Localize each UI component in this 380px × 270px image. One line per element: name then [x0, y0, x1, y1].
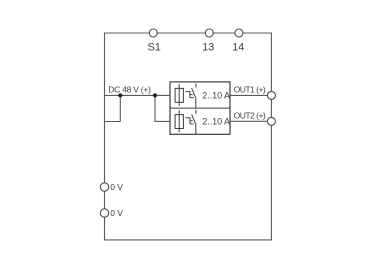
breaker contact Q1 (channel 1) [185, 84, 196, 109]
wire: step branch down-left to rail [105, 95, 121, 121]
wire: bottom rail [104, 239, 272, 241]
wire: DC 48 V (+) input to channel 1 [105, 94, 171, 96]
svg-text:DC 48 V (+): DC 48 V (+) [108, 85, 151, 95]
wire: right rail [270, 33, 272, 240]
device box U1 (dual electronic circuit breaker) [170, 82, 230, 134]
terminal S1 [149, 29, 157, 37]
wire: box divider [170, 107, 230, 109]
wire: OUT2 output [230, 120, 268, 122]
terminal OUT1 [267, 91, 275, 99]
terminal 0V upper [100, 183, 108, 191]
wire: branch to channel 2 [155, 95, 170, 121]
svg-text:13: 13 [202, 42, 214, 54]
svg-text:2..10 A: 2..10 A [202, 117, 230, 127]
svg-text:0 V: 0 V [110, 182, 123, 192]
node: junction dot 1 [118, 93, 122, 97]
fuse F2 (channel 2) [175, 110, 183, 132]
fuse F1 (channel 1) [175, 84, 183, 106]
svg-text:0 V: 0 V [110, 208, 123, 218]
node: junction dot 2 [153, 93, 157, 97]
svg-text:2..10 A: 2..10 A [202, 90, 230, 100]
terminal OUT2 [267, 117, 275, 125]
wire: left rail [104, 33, 106, 240]
svg-text:S1: S1 [147, 42, 160, 54]
terminal 0V lower [100, 209, 108, 217]
svg-text:OUT2 (+): OUT2 (+) [234, 110, 266, 120]
svg-text:14: 14 [232, 42, 244, 54]
breaker contact Q2 (channel 2) [185, 110, 196, 135]
terminal 13 [205, 29, 213, 37]
terminal 14 [235, 29, 243, 37]
wire: OUT1 output [230, 94, 268, 96]
svg-text:OUT1 (+): OUT1 (+) [234, 84, 266, 94]
wire: top rail [104, 32, 272, 34]
